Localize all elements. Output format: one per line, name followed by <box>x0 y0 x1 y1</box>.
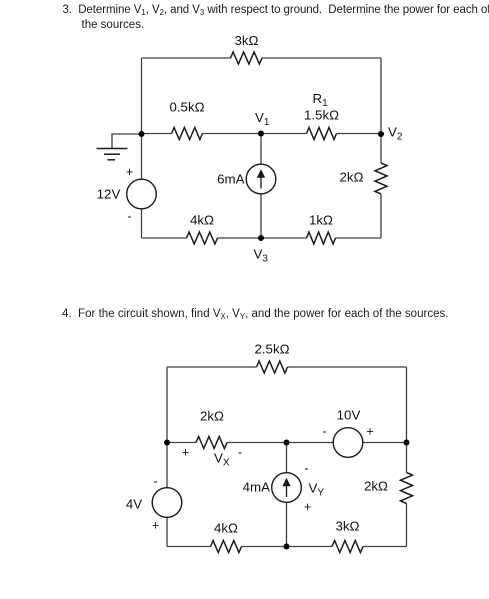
wire R1 to node V2 <box>337 133 382 135</box>
svg-text:+: + <box>304 500 311 514</box>
current source 4mA <box>272 473 302 503</box>
node V1 <box>258 131 264 137</box>
svg-text:+: + <box>182 446 189 460</box>
svg-text:3kΩ: 3kΩ <box>235 33 259 48</box>
resistor 2k (middle) <box>196 437 227 449</box>
wire 12V source to bottom-left corner <box>141 209 143 238</box>
svg-text:4kΩ: 4kΩ <box>214 521 238 536</box>
resistor 3k (bottom) <box>332 541 363 553</box>
wire 6mA source to node V3 <box>260 194 262 238</box>
svg-text:V3: V3 <box>254 247 269 265</box>
wire V2 down to 2k resistor <box>380 134 382 163</box>
svg-text:1kΩ: 1kΩ <box>309 213 333 228</box>
wire 4k to 1k through V3 <box>218 237 307 239</box>
node right mid <box>404 440 410 446</box>
node center mid <box>284 440 290 446</box>
wire bottom left to 4k <box>142 237 187 239</box>
wire left rail top <box>141 58 143 134</box>
resistor 4k (bottom) <box>211 541 242 553</box>
svg-text:-: - <box>322 425 326 439</box>
wire 3k resistor to top-right corner <box>262 57 381 59</box>
wire 2k to center node <box>227 442 287 444</box>
svg-text:1.5kΩ: 1.5kΩ <box>304 108 339 123</box>
wire right rail top to V2 <box>380 58 382 134</box>
wire mid-left to 2k <box>167 442 196 444</box>
svg-text:-: - <box>127 210 131 224</box>
wire 2k resistor to bottom-right corner <box>380 194 382 238</box>
svg-text:VX: VX <box>214 451 230 469</box>
svg-text:2kΩ: 2kΩ <box>200 409 224 424</box>
node left mid <box>164 440 170 446</box>
resistor 2.5k (top) <box>257 361 288 373</box>
svg-text:4kΩ: 4kΩ <box>190 213 214 228</box>
ground symbol <box>97 149 128 160</box>
wire right node to 2k vert <box>406 443 408 473</box>
resistor R1 1.5k <box>307 128 337 140</box>
node V3 <box>258 235 264 241</box>
wire middle left <box>142 133 172 135</box>
svg-text:4V: 4V <box>126 497 142 512</box>
node V2 <box>378 131 384 137</box>
wire left rail top <box>166 367 168 443</box>
svg-text:6mA: 6mA <box>217 172 244 187</box>
resistor 0.5k <box>172 128 203 140</box>
problem 4 statement <box>62 308 449 323</box>
node bottom center <box>284 544 290 550</box>
wire 3k to bottom-right <box>363 546 407 548</box>
voltage source 4V <box>152 488 182 518</box>
svg-text:-: - <box>238 446 242 460</box>
svg-text:4mA: 4mA <box>243 480 270 495</box>
wire top-left to 3k resistor <box>142 57 231 59</box>
svg-text:2.5kΩ: 2.5kΩ <box>254 342 289 357</box>
resistor 2k (right rail) <box>401 473 413 504</box>
problem 3 statement <box>63 4 489 32</box>
wire 4k to 3k through bottom node <box>242 546 333 548</box>
wire center node down to 4mA <box>286 443 288 473</box>
wire 2.5k to top-right <box>288 366 407 368</box>
svg-text:VY: VY <box>309 481 325 499</box>
svg-text:V1: V1 <box>255 110 270 128</box>
wire 4mA to bottom node <box>286 502 288 546</box>
voltage source 10V <box>333 428 363 458</box>
resistor 1k (bottom) <box>307 232 336 244</box>
wire right rail top <box>406 367 408 443</box>
svg-text:0.5kΩ: 0.5kΩ <box>169 100 204 115</box>
wire 10V source to right node <box>363 442 407 444</box>
wire left node to 4V source <box>166 443 168 488</box>
svg-text:+: + <box>126 165 133 179</box>
svg-text:2kΩ: 2kΩ <box>364 479 388 494</box>
svg-text:-: - <box>304 462 308 476</box>
voltage source 12V <box>127 179 157 209</box>
wire node V1 down to 6mA source <box>260 134 262 165</box>
resistor 3k (top) <box>231 52 263 64</box>
ground wire stub <box>112 134 142 149</box>
svg-text:V2: V2 <box>388 125 403 143</box>
svg-text:3kΩ: 3kΩ <box>336 519 360 534</box>
wire bottom-left to 4k <box>167 546 211 548</box>
svg-text:12V: 12V <box>97 187 121 202</box>
wire center node to 10V source <box>287 442 334 444</box>
svg-text:R1: R1 <box>313 91 329 109</box>
resistor 2k (right rail) <box>375 163 387 194</box>
node ground junction <box>139 131 145 137</box>
svg-text:+: + <box>152 519 159 533</box>
wire top-left to 2.5k <box>167 366 257 368</box>
wire 1k to bottom-right corner <box>336 237 382 239</box>
wire left rail dot to 12V source <box>141 134 143 179</box>
svg-text:10V: 10V <box>337 408 361 423</box>
svg-text:-: - <box>153 475 157 489</box>
wire 4V source to bottom-left <box>166 517 168 546</box>
svg-text:2kΩ: 2kΩ <box>340 170 364 185</box>
resistor 4k (bottom) <box>187 232 218 244</box>
svg-text:+: + <box>366 425 373 439</box>
wire 2k vert to bottom-right <box>406 504 408 547</box>
current source 6mA <box>246 164 276 194</box>
wire 0.5k to node V1 and to R1 <box>203 133 307 135</box>
